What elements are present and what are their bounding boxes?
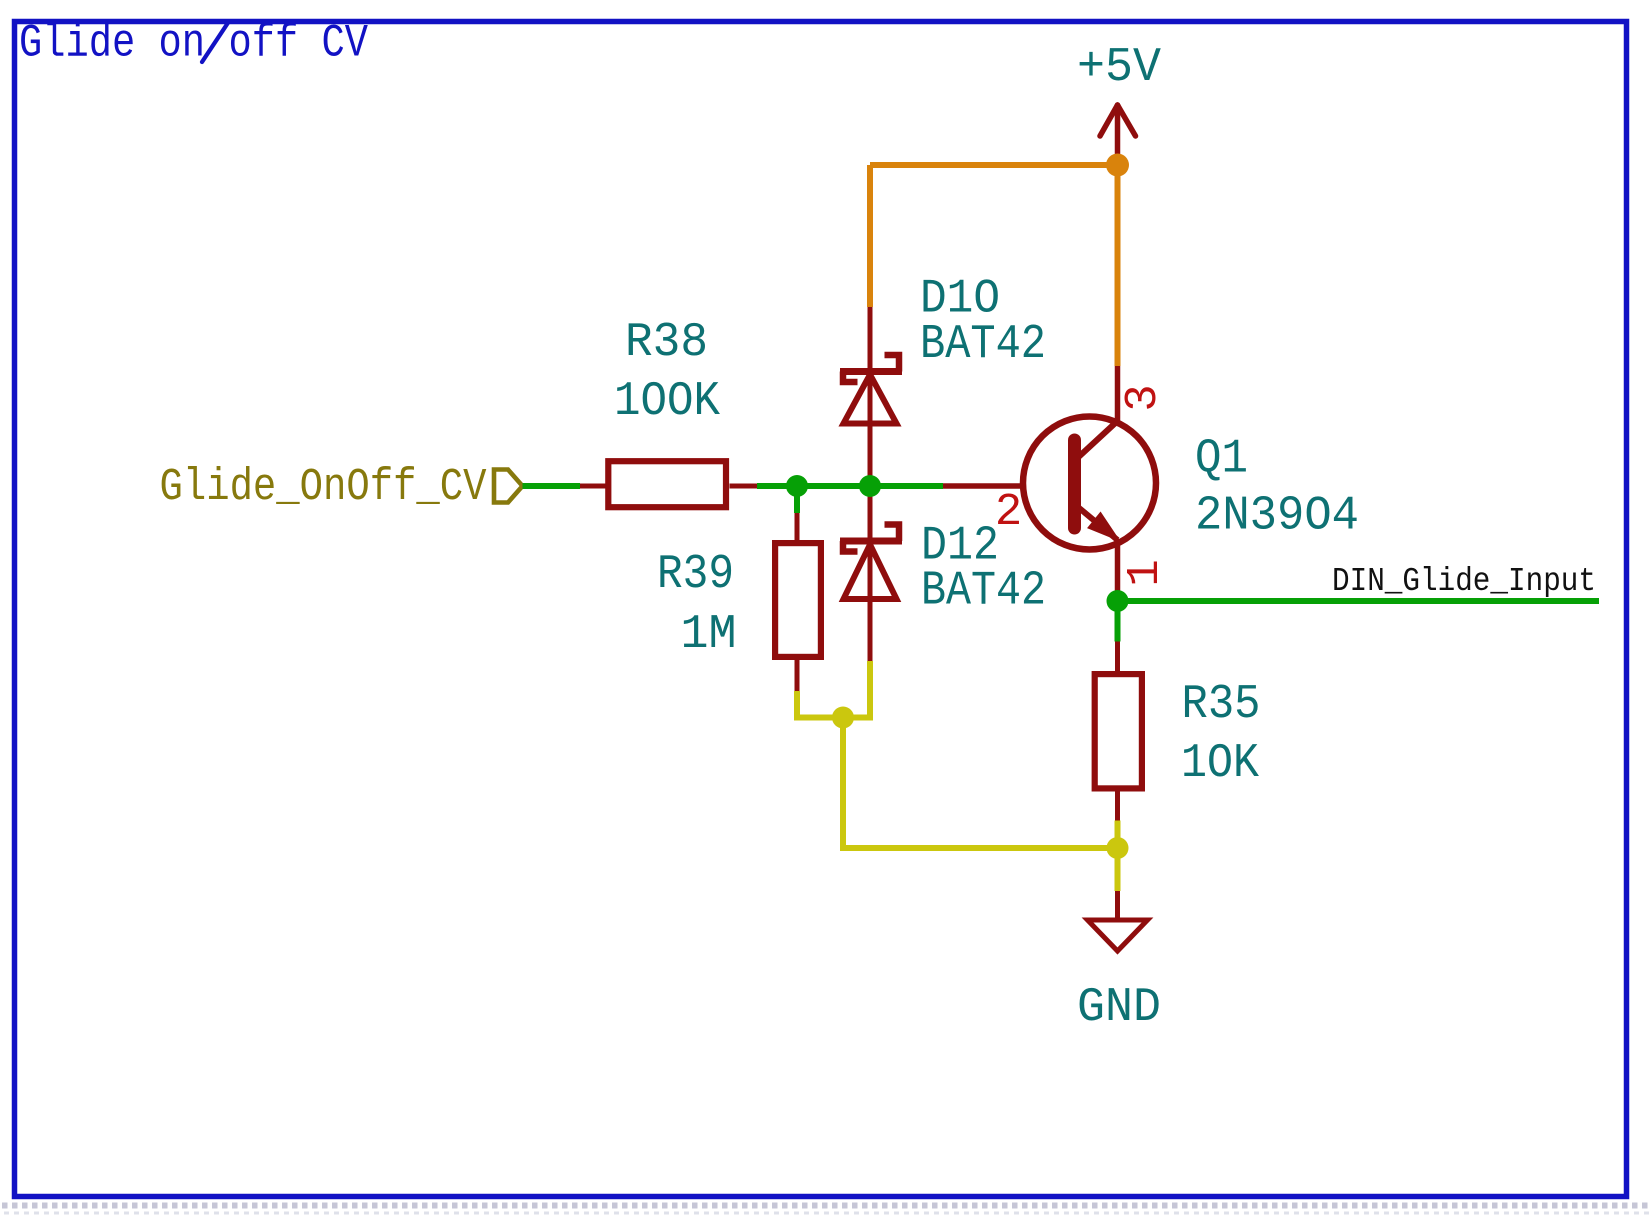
svg-text:1: 1: [1119, 559, 1171, 586]
wire orange +5V horizontal: [870, 162, 1118, 168]
hierarchical label Glide_OnOff_CV: [494, 470, 523, 503]
svg-text:Q1: Q1: [1195, 433, 1248, 487]
wire green label to R38: [523, 483, 581, 489]
svg-text:Glide_OnOff_CV: Glide_OnOff_CV: [160, 461, 488, 513]
svg-text:2N39O4: 2N39O4: [1195, 490, 1359, 544]
svg-text:1OOK: 1OOK: [614, 375, 720, 429]
wire green emitter to R35: [1115, 601, 1121, 642]
svg-text:1OK: 1OK: [1181, 737, 1259, 791]
resistor R38 100K: [580, 461, 757, 507]
svg-text:2: 2: [995, 486, 1022, 538]
svg-text:off CV: off CV: [229, 18, 369, 70]
wire green R38 to base: [757, 483, 943, 489]
diode D10 BAT42: [840, 307, 902, 486]
wire orange right vertical: [1115, 165, 1121, 366]
sheet title Glide on/off CV: [19, 18, 368, 70]
svg-text:DIN_Glide_Input: DIN_Glide_Input: [1332, 563, 1596, 601]
resistor R39 1M: [775, 486, 821, 691]
svg-text:+5V: +5V: [1077, 41, 1161, 95]
svg-text:3: 3: [1117, 384, 1169, 411]
svg-text:R35: R35: [1182, 678, 1261, 732]
wire orange left vertical: [867, 165, 873, 307]
wire yellow R39 bottom: [797, 661, 870, 718]
svg-text:Glide on: Glide on: [19, 18, 205, 70]
transistor Q1 2N3904: [943, 366, 1156, 601]
svg-text:R38: R38: [625, 316, 708, 370]
junction green emitter: [1107, 590, 1129, 612]
wire yellow to GND: [1115, 848, 1121, 891]
svg-text:R39: R39: [657, 548, 734, 602]
svg-text:BAT42: BAT42: [921, 565, 1046, 619]
wire green DIN_Glide_Input: [1118, 598, 1600, 604]
ground symbol: [1088, 891, 1148, 951]
diode D12 BAT42: [840, 486, 902, 662]
svg-text:GND: GND: [1077, 981, 1161, 1035]
junction yellow 2: [1107, 837, 1129, 859]
resistor R35 10K: [1095, 642, 1142, 821]
junction green B: [859, 475, 881, 497]
junction green A: [786, 475, 808, 497]
wire yellow R35 bottom: [1115, 821, 1121, 849]
junction yellow: [832, 707, 854, 729]
svg-text:BAT42: BAT42: [920, 318, 1046, 372]
svg-text:1M: 1M: [681, 608, 737, 662]
power +5V symbol: [1100, 105, 1136, 165]
wire yellow down-right to R35 bottom: [843, 718, 1118, 849]
clipped footer marks below sheet: [2, 1206, 1650, 1214]
junction orange: [1106, 154, 1129, 177]
